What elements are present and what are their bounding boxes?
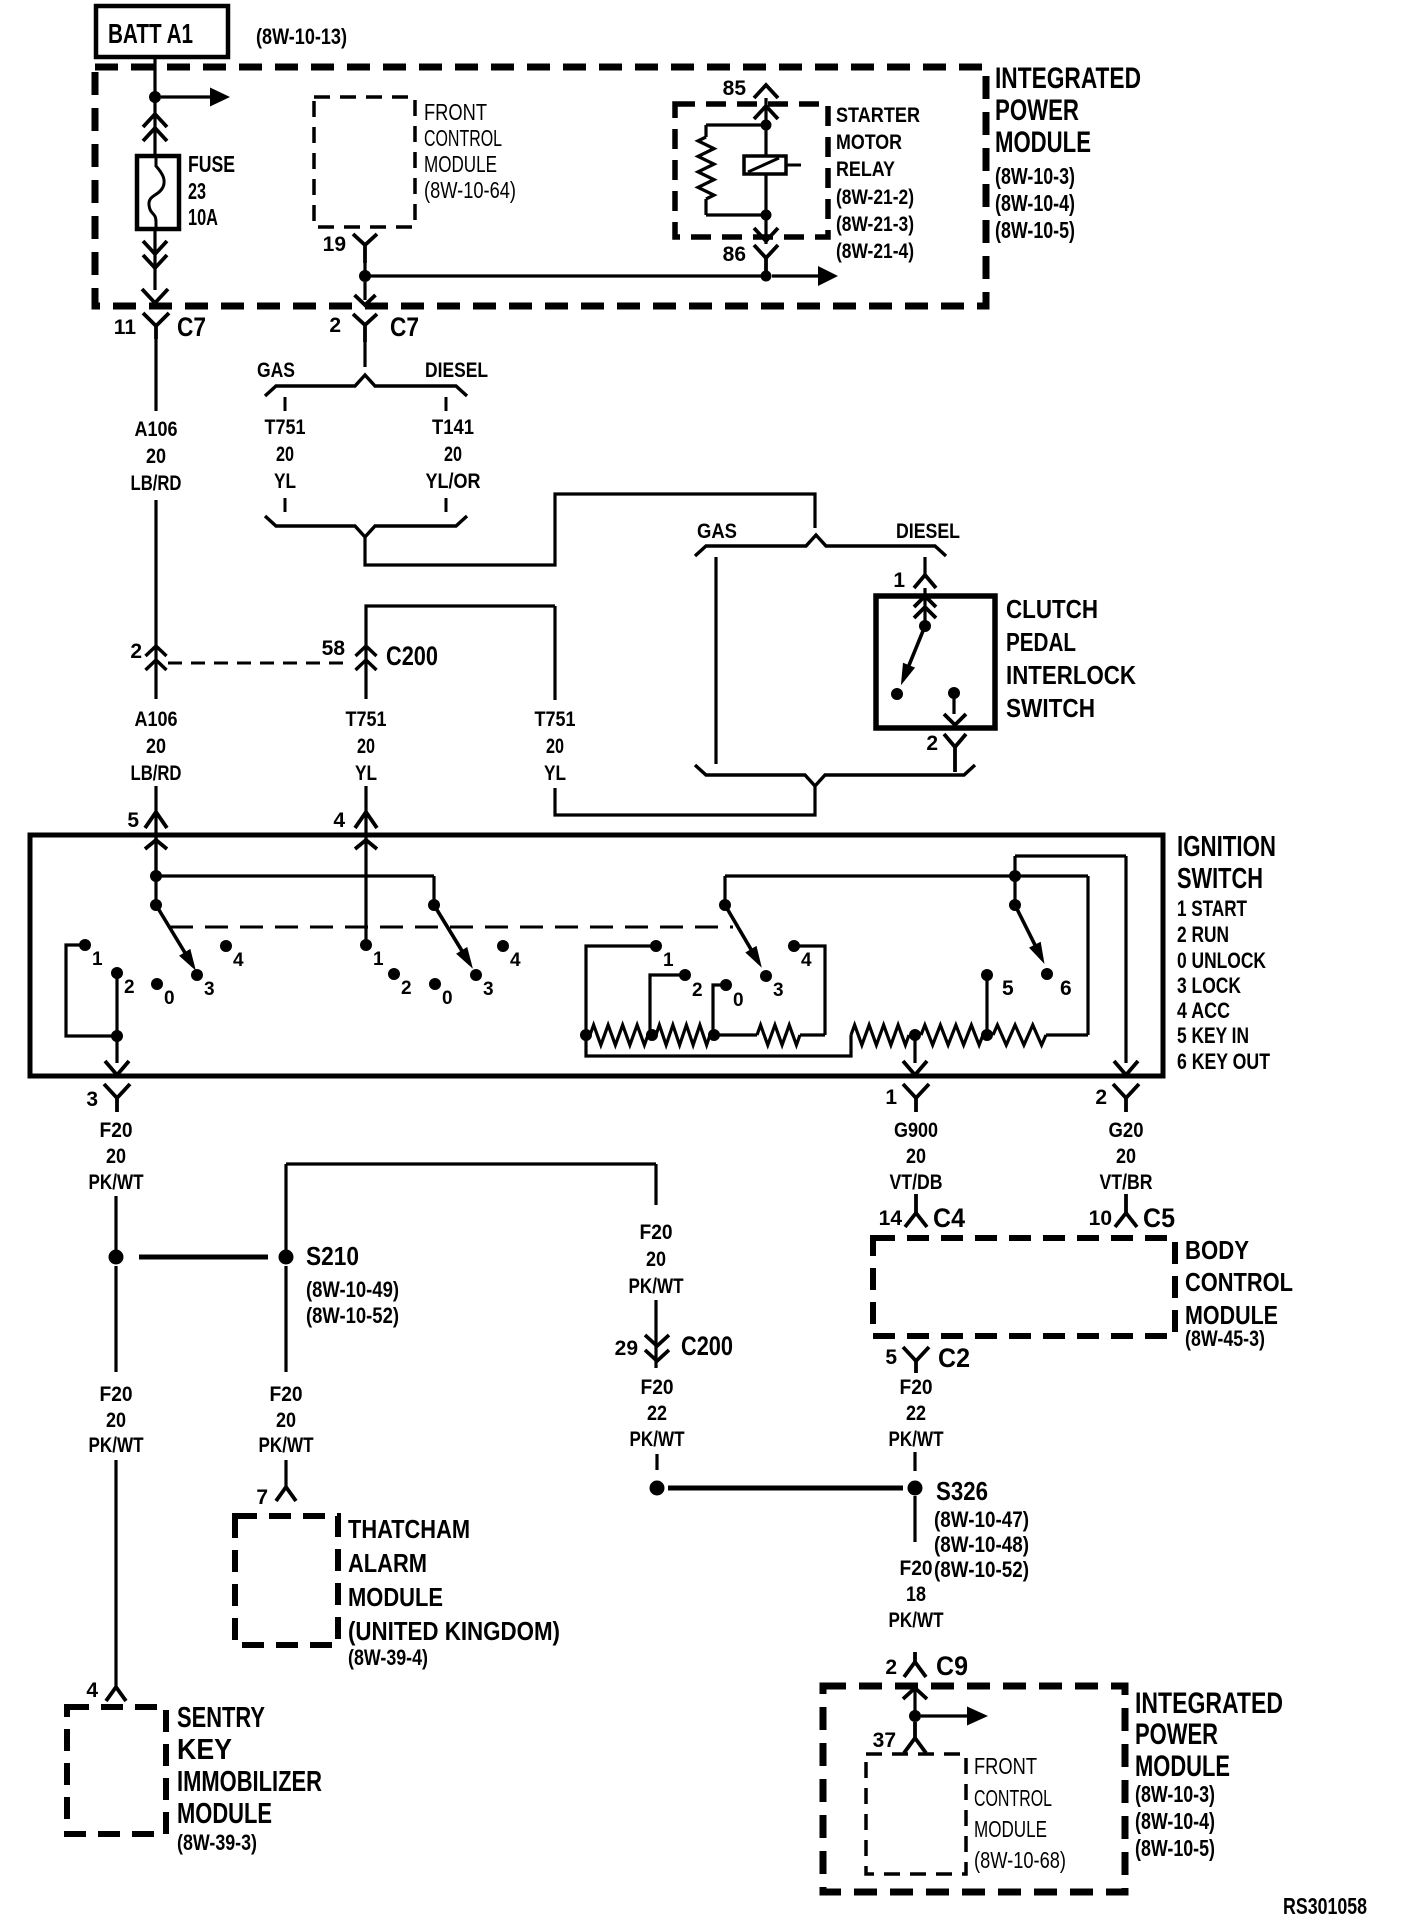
svg-text:YL: YL	[544, 762, 566, 785]
svg-text:T141: T141	[432, 416, 474, 439]
svg-text:10: 10	[1089, 1207, 1112, 1230]
svg-text:20: 20	[646, 1248, 666, 1271]
svg-text:F20: F20	[640, 1221, 673, 1244]
svg-text:20: 20	[546, 735, 564, 758]
svg-text:IMMOBILIZER: IMMOBILIZER	[177, 1766, 322, 1798]
svg-text:20: 20	[1116, 1145, 1136, 1168]
svg-text:F20: F20	[270, 1383, 303, 1406]
svg-text:2: 2	[401, 978, 412, 999]
svg-text:MODULE: MODULE	[177, 1798, 272, 1830]
svg-text:1: 1	[373, 949, 384, 970]
svg-text:PK/WT: PK/WT	[89, 1434, 144, 1457]
svg-text:14: 14	[879, 1207, 903, 1230]
svg-text:T751: T751	[265, 416, 306, 439]
svg-text:INTEGRATED: INTEGRATED	[995, 62, 1141, 95]
svg-text:5: 5	[885, 1346, 897, 1369]
svg-text:S326: S326	[936, 1476, 988, 1506]
svg-text:(8W-10-13): (8W-10-13)	[256, 24, 347, 49]
svg-text:PK/WT: PK/WT	[629, 1275, 684, 1298]
svg-text:85: 85	[723, 77, 747, 100]
svg-text:VT/BR: VT/BR	[1100, 1171, 1153, 1194]
svg-text:PK/WT: PK/WT	[889, 1609, 944, 1632]
svg-text:(8W-10-64): (8W-10-64)	[424, 177, 516, 203]
svg-text:20: 20	[106, 1409, 126, 1432]
svg-text:3: 3	[86, 1088, 98, 1111]
svg-text:LB/RD: LB/RD	[131, 762, 182, 785]
svg-text:(8W-10-68): (8W-10-68)	[974, 1847, 1066, 1873]
svg-text:2: 2	[329, 314, 341, 337]
svg-text:(8W-21-2): (8W-21-2)	[836, 186, 914, 209]
svg-text:C7: C7	[177, 312, 206, 342]
svg-text:F20: F20	[641, 1376, 674, 1399]
svg-text:1: 1	[885, 1086, 897, 1109]
svg-text:CONTROL: CONTROL	[974, 1785, 1052, 1811]
svg-text:20: 20	[444, 443, 462, 466]
svg-text:DIESEL: DIESEL	[896, 520, 960, 543]
svg-text:KEY: KEY	[177, 1734, 232, 1766]
svg-text:PK/WT: PK/WT	[889, 1428, 944, 1451]
svg-text:C9: C9	[936, 1651, 968, 1681]
svg-text:(8W-10-48): (8W-10-48)	[934, 1532, 1029, 1557]
svg-text:INTEGRATED: INTEGRATED	[1135, 1687, 1283, 1720]
svg-text:SWITCH: SWITCH	[1177, 863, 1263, 895]
svg-text:4: 4	[510, 950, 521, 971]
svg-text:RS301058: RS301058	[1283, 1893, 1367, 1919]
svg-text:MODULE: MODULE	[995, 126, 1091, 159]
svg-text:20: 20	[146, 735, 166, 758]
svg-text:20: 20	[276, 443, 294, 466]
svg-text:(8W-45-3): (8W-45-3)	[1185, 1326, 1265, 1351]
svg-text:C200: C200	[681, 1331, 733, 1361]
svg-text:A106: A106	[135, 418, 178, 441]
svg-text:1 START: 1 START	[1177, 896, 1247, 921]
svg-text:10A: 10A	[188, 204, 218, 230]
svg-text:2: 2	[926, 732, 938, 755]
svg-text:11: 11	[114, 316, 137, 339]
svg-text:F20: F20	[100, 1119, 133, 1142]
svg-text:FRONT: FRONT	[974, 1753, 1037, 1779]
svg-text:(8W-21-4): (8W-21-4)	[836, 240, 914, 263]
svg-text:(UNITED KINGDOM): (UNITED KINGDOM)	[348, 1616, 560, 1646]
svg-text:18: 18	[906, 1583, 926, 1606]
svg-text:CLUTCH: CLUTCH	[1006, 594, 1098, 624]
svg-text:86: 86	[723, 243, 746, 266]
svg-text:VT/DB: VT/DB	[890, 1171, 943, 1194]
svg-text:G20: G20	[1109, 1119, 1144, 1142]
svg-text:DIESEL: DIESEL	[425, 359, 488, 382]
svg-text:POWER: POWER	[995, 94, 1079, 127]
svg-text:58: 58	[322, 637, 346, 660]
svg-text:YL: YL	[274, 470, 296, 493]
svg-text:3 LOCK: 3 LOCK	[1177, 973, 1241, 998]
svg-text:(8W-10-52): (8W-10-52)	[934, 1557, 1029, 1582]
svg-text:F20: F20	[100, 1383, 133, 1406]
svg-text:3: 3	[483, 979, 494, 1000]
svg-text:SWITCH: SWITCH	[1006, 693, 1095, 723]
svg-text:20: 20	[906, 1145, 926, 1168]
svg-text:(8W-10-3): (8W-10-3)	[1135, 1781, 1215, 1807]
svg-text:(8W-10-5): (8W-10-5)	[1135, 1835, 1215, 1861]
svg-text:ALARM: ALARM	[348, 1548, 427, 1578]
svg-text:6: 6	[1060, 977, 1072, 1000]
svg-text:(8W-10-4): (8W-10-4)	[1135, 1808, 1215, 1834]
svg-text:5: 5	[127, 809, 139, 832]
svg-text:(8W-10-3): (8W-10-3)	[995, 163, 1075, 189]
svg-text:0 UNLOCK: 0 UNLOCK	[1177, 948, 1266, 973]
svg-text:C4: C4	[933, 1203, 965, 1233]
svg-text:BODY: BODY	[1185, 1235, 1249, 1265]
svg-text:(8W-10-47): (8W-10-47)	[934, 1507, 1029, 1532]
svg-text:22: 22	[647, 1402, 667, 1425]
svg-text:PK/WT: PK/WT	[630, 1428, 685, 1451]
svg-text:F20: F20	[900, 1557, 933, 1580]
svg-text:1: 1	[663, 950, 674, 971]
svg-text:S210: S210	[306, 1241, 359, 1271]
svg-text:FRONT: FRONT	[424, 99, 487, 125]
svg-text:4: 4	[801, 950, 812, 971]
svg-text:4: 4	[333, 809, 345, 832]
svg-text:F20: F20	[900, 1376, 933, 1399]
svg-text:MODULE: MODULE	[974, 1816, 1047, 1842]
svg-text:(8W-21-3): (8W-21-3)	[836, 213, 914, 236]
svg-text:RELAY: RELAY	[836, 158, 895, 181]
svg-text:PK/WT: PK/WT	[259, 1434, 314, 1457]
svg-text:20: 20	[106, 1145, 126, 1168]
svg-text:22: 22	[906, 1402, 926, 1425]
svg-text:CONTROL: CONTROL	[1185, 1267, 1293, 1297]
svg-text:37: 37	[873, 1729, 896, 1752]
svg-text:7: 7	[256, 1486, 268, 1509]
svg-text:0: 0	[733, 990, 744, 1011]
svg-text:MODULE: MODULE	[1135, 1750, 1230, 1783]
svg-text:YL: YL	[355, 762, 377, 785]
svg-text:4: 4	[86, 1679, 98, 1702]
svg-text:19: 19	[323, 233, 346, 256]
svg-text:5: 5	[1002, 977, 1014, 1000]
svg-text:YL/OR: YL/OR	[426, 470, 481, 493]
svg-text:FUSE: FUSE	[188, 151, 235, 177]
svg-text:A106: A106	[135, 708, 178, 731]
svg-text:MODULE: MODULE	[348, 1582, 443, 1612]
svg-text:0: 0	[164, 988, 175, 1009]
svg-text:4: 4	[233, 950, 244, 971]
svg-text:C7: C7	[390, 312, 419, 342]
svg-text:2: 2	[1095, 1086, 1107, 1109]
svg-text:LB/RD: LB/RD	[131, 472, 182, 495]
svg-text:MOTOR: MOTOR	[836, 131, 902, 154]
svg-text:C5: C5	[1143, 1203, 1175, 1233]
svg-text:29: 29	[615, 1337, 638, 1360]
svg-text:G900: G900	[894, 1119, 938, 1142]
svg-text:(8W-39-3): (8W-39-3)	[177, 1830, 257, 1855]
svg-text:INTERLOCK: INTERLOCK	[1006, 660, 1136, 690]
svg-text:2: 2	[692, 980, 703, 1001]
svg-text:GAS: GAS	[257, 359, 295, 382]
svg-text:2: 2	[130, 640, 142, 663]
svg-text:1: 1	[893, 569, 905, 592]
svg-text:BATT A1: BATT A1	[108, 18, 193, 49]
svg-text:20: 20	[276, 1409, 296, 1432]
svg-text:IGNITION: IGNITION	[1177, 831, 1276, 863]
svg-text:T751: T751	[535, 708, 576, 731]
svg-text:3: 3	[204, 979, 215, 1000]
svg-text:PEDAL: PEDAL	[1006, 627, 1076, 657]
svg-text:5 KEY IN: 5 KEY IN	[1177, 1023, 1249, 1048]
svg-text:POWER: POWER	[1135, 1718, 1218, 1751]
svg-text:20: 20	[146, 445, 166, 468]
svg-text:CONTROL: CONTROL	[424, 125, 502, 151]
svg-text:C2: C2	[938, 1343, 970, 1373]
svg-text:THATCHAM: THATCHAM	[348, 1514, 470, 1544]
svg-text:3: 3	[773, 980, 784, 1001]
svg-text:4 ACC: 4 ACC	[1177, 998, 1230, 1023]
svg-text:20: 20	[357, 735, 375, 758]
svg-text:PK/WT: PK/WT	[89, 1171, 144, 1194]
svg-text:2: 2	[124, 977, 135, 998]
svg-text:T751: T751	[346, 708, 387, 731]
svg-text:1: 1	[92, 949, 103, 970]
svg-text:SENTRY: SENTRY	[177, 1702, 265, 1734]
svg-text:STARTER: STARTER	[836, 104, 920, 127]
svg-text:23: 23	[188, 178, 206, 204]
svg-text:C200: C200	[386, 641, 438, 671]
svg-text:(8W-10-5): (8W-10-5)	[995, 217, 1075, 243]
svg-text:2 RUN: 2 RUN	[1177, 922, 1229, 947]
svg-text:2: 2	[885, 1656, 897, 1679]
svg-text:(8W-10-52): (8W-10-52)	[306, 1303, 399, 1328]
svg-text:(8W-39-4): (8W-39-4)	[348, 1645, 428, 1670]
svg-text:0: 0	[442, 988, 453, 1009]
svg-text:MODULE: MODULE	[424, 151, 497, 177]
svg-text:(8W-10-4): (8W-10-4)	[995, 190, 1075, 216]
svg-text:6 KEY OUT: 6 KEY OUT	[1177, 1049, 1270, 1074]
svg-text:(8W-10-49): (8W-10-49)	[306, 1277, 399, 1302]
svg-text:GAS: GAS	[697, 520, 737, 543]
